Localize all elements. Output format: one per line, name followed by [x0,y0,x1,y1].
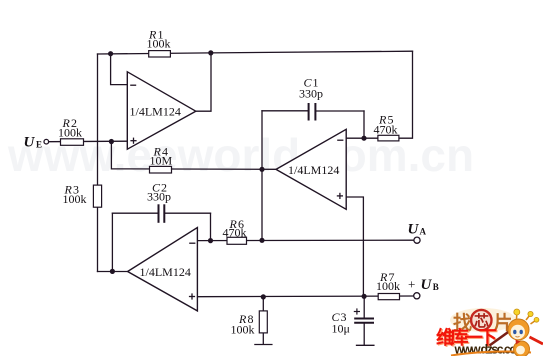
svg-text:100k: 100k [231,322,255,336]
svg-text:10μ: 10μ [332,321,350,335]
svg-text:U: U [421,277,433,293]
svg-text:+: + [408,277,415,292]
svg-text:A: A [420,227,427,237]
svg-text:1/4LM124: 1/4LM124 [140,265,191,279]
svg-text:U: U [24,134,36,150]
svg-text:100k: 100k [58,126,82,140]
svg-text:100k: 100k [147,37,171,51]
svg-text:470k: 470k [374,123,398,137]
svg-text:470k: 470k [223,225,247,239]
svg-text:100k: 100k [376,279,400,293]
svg-text:1/4LM124: 1/4LM124 [288,163,339,177]
svg-text:330p: 330p [147,190,171,204]
svg-text:E: E [36,140,42,150]
svg-text:1/4LM124: 1/4LM124 [130,105,181,119]
svg-text:10M: 10M [150,153,173,167]
svg-text:330p: 330p [299,87,323,101]
svg-text:B: B [433,282,439,292]
svg-text:100k: 100k [63,192,87,206]
svg-text:U: U [408,222,420,238]
